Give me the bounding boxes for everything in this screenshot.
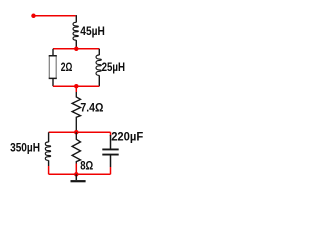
node junction dot 3 (74, 130, 79, 135)
node junction dot 1 (74, 47, 79, 52)
node A (input terminal dot) (31, 14, 36, 18)
wire lead capacitor top (110, 132, 112, 136)
wire from junction 2 down (75, 86, 77, 92)
svg-text:8Ω: 8Ω (80, 159, 93, 173)
wire from node A to L1 top (34, 15, 76, 17)
wire lead left branch bottom (52, 78, 54, 86)
svg-text:220µF: 220µF (111, 129, 143, 143)
wire rail top of parallel section 1 (53, 48, 99, 50)
svg-text:7.4Ω: 7.4Ω (80, 100, 103, 114)
node junction dot 2 (74, 84, 79, 89)
inductor L2 25uH (96, 49, 101, 86)
wire rail bottom of parallel section 2 (49, 173, 111, 175)
svg-text:2Ω: 2Ω (61, 60, 73, 74)
resistor R1 2ohm (box) (49, 56, 57, 79)
ground (75, 174, 77, 180)
wire lead 350uH bottom (48, 166, 50, 174)
resistor R3 8ohm (zigzag) (72, 132, 80, 163)
inductor L3 350uH (45, 132, 50, 166)
capacitor C1 220uF (102, 135, 118, 167)
svg-text:350µH: 350µH (10, 140, 40, 154)
resistor R2 7.4ohm (zigzag) (72, 92, 80, 132)
svg-text:45µH: 45µH (80, 24, 105, 38)
svg-text:25µH: 25µH (102, 60, 125, 74)
wire lead capacitor bottom (110, 167, 112, 174)
wire rail top of parallel section 2 (49, 131, 111, 133)
node junction dot 4 (74, 172, 79, 177)
wire rail bottom of parallel section 1 (53, 85, 99, 87)
wire lead left branch top (52, 49, 54, 56)
inductor L1 45uH (73, 15, 78, 49)
wire lead 8ohm bottom (75, 164, 77, 175)
